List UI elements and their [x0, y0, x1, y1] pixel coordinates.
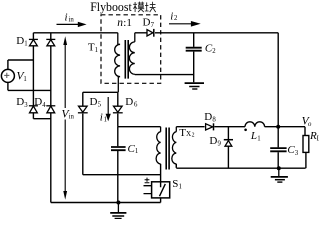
- resistor RL: [303, 136, 309, 153]
- capacitor C2: [186, 48, 202, 51]
- svg-text:D: D: [34, 96, 42, 108]
- switch S1 gate stubs: [144, 186, 152, 194]
- junction dot output ground: [277, 166, 281, 170]
- transformer Tx2 primary winding: [156, 127, 160, 164]
- svg-text:1: 1: [104, 117, 107, 124]
- svg-text:S: S: [172, 178, 178, 190]
- wire secondary output top: [176, 127, 305, 136]
- capacitor C1: [111, 147, 126, 150]
- svg-text:in: in: [69, 16, 75, 23]
- svg-text:1: 1: [135, 148, 138, 155]
- wire C3 leads: [277, 127, 279, 169]
- svg-text:1: 1: [24, 40, 27, 47]
- diode D5 (pointing down): [78, 106, 88, 113]
- svg-text:D: D: [16, 96, 24, 108]
- svg-text:3: 3: [24, 102, 28, 109]
- svg-text:9: 9: [218, 140, 222, 147]
- current arrow i_in: [57, 23, 81, 25]
- wire D5 branch: [83, 92, 161, 174]
- wire V1 bottom to bridge right leg: [8, 83, 51, 91]
- Vin measurement arrow (double headed): [63, 36, 67, 200]
- voltage source V1: [1, 69, 14, 82]
- ground below C2: [185, 83, 204, 89]
- diode D6 (pointing down): [113, 106, 123, 113]
- label Vin: [60, 108, 75, 120]
- svg-text:i: i: [65, 12, 68, 24]
- diode D1 (bridge top-left, pointing up): [29, 39, 38, 45]
- inductor L1: [245, 122, 265, 127]
- wire output ground rail: [176, 164, 305, 168]
- current arrow i2: [169, 23, 192, 25]
- svg-text:4: 4: [42, 102, 46, 109]
- wire right vertical from top rail: [155, 33, 278, 127]
- ground symbol right: [271, 168, 288, 182]
- svg-text:2: 2: [192, 132, 195, 138]
- wire D9 leads: [227, 127, 229, 169]
- plus-minus mark at S1: [145, 178, 150, 183]
- svg-text:3: 3: [295, 150, 299, 157]
- capacitor C3: [270, 148, 286, 151]
- diode D9 (pointing down): [224, 139, 233, 141]
- svg-text:2: 2: [174, 15, 178, 22]
- ground symbol left: [110, 203, 126, 219]
- svg-text:1: 1: [95, 47, 98, 54]
- transformer T1 core: [125, 40, 128, 79]
- svg-text:5: 5: [98, 101, 102, 108]
- svg-text:Flyboost: Flyboost: [90, 0, 132, 14]
- transformer Tx2 core: [166, 128, 169, 170]
- wire bridge right leg: [50, 33, 52, 203]
- wire mid rail to Tx2: [118, 126, 161, 128]
- wire S1 top lead: [160, 164, 162, 182]
- wire top rail left (bridge + to T1 primary): [33, 32, 117, 34]
- junction dot output node: [276, 125, 280, 129]
- diode D4 (bridge bottom-right, pointing up): [46, 106, 55, 113]
- svg-text:in: in: [69, 114, 75, 121]
- current arrow i1: [107, 97, 109, 115]
- wire V1 top to bridge left leg: [8, 60, 34, 69]
- svg-text:7: 7: [151, 22, 155, 29]
- svg-text:D: D: [125, 96, 133, 108]
- dashed Flyboost module box: [101, 15, 161, 84]
- switch S1 blade and contact: [160, 182, 166, 196]
- svg-text:6: 6: [134, 101, 138, 108]
- svg-text:D: D: [16, 35, 24, 47]
- svg-text:2: 2: [212, 48, 216, 55]
- svg-text:8: 8: [212, 116, 216, 123]
- transformer Tx2 secondary winding: [172, 127, 176, 168]
- transformer T1 primary winding: [115, 33, 120, 93]
- svg-text:i: i: [170, 10, 173, 22]
- svg-text:L: L: [317, 135, 319, 142]
- wire bottom ground rail: [51, 202, 161, 204]
- svg-text:L: L: [250, 130, 257, 142]
- svg-text:1: 1: [23, 76, 26, 83]
- diode D8: [206, 124, 213, 130]
- wire S1 bottom lead: [160, 198, 162, 203]
- diode D2 (bridge top-right, pointing up): [46, 39, 55, 45]
- diode D3 (bridge bottom-left, pointing up): [29, 106, 38, 113]
- hanzi KUAI (块) hand-drawn: [145, 2, 156, 12]
- svg-text:1: 1: [257, 135, 260, 142]
- hanzi MO (模) hand-drawn: [133, 2, 144, 12]
- polarity dot at L1: [244, 129, 247, 132]
- wire C2 lead and T1 secondary bottom: [135, 33, 194, 83]
- svg-text:1: 1: [179, 183, 182, 190]
- svg-text:D: D: [90, 96, 98, 108]
- svg-text:i: i: [100, 111, 103, 123]
- wire RL bottom lead: [305, 152, 307, 168]
- svg-text:D: D: [209, 135, 217, 147]
- svg-text:D: D: [143, 16, 151, 28]
- svg-text:o: o: [308, 121, 312, 128]
- svg-text:D: D: [204, 111, 212, 123]
- wire bridge left leg: [33, 33, 50, 119]
- transformer T1 secondary winding: [129, 33, 147, 75]
- junction dot bottom rail: [116, 201, 120, 205]
- svg-text::1: :1: [123, 17, 132, 29]
- wire C1 leads: [117, 127, 119, 203]
- switch S1 box: [152, 182, 170, 198]
- diode D7: [147, 30, 153, 36]
- wire T1 primary bottom to D6: [117, 92, 119, 126]
